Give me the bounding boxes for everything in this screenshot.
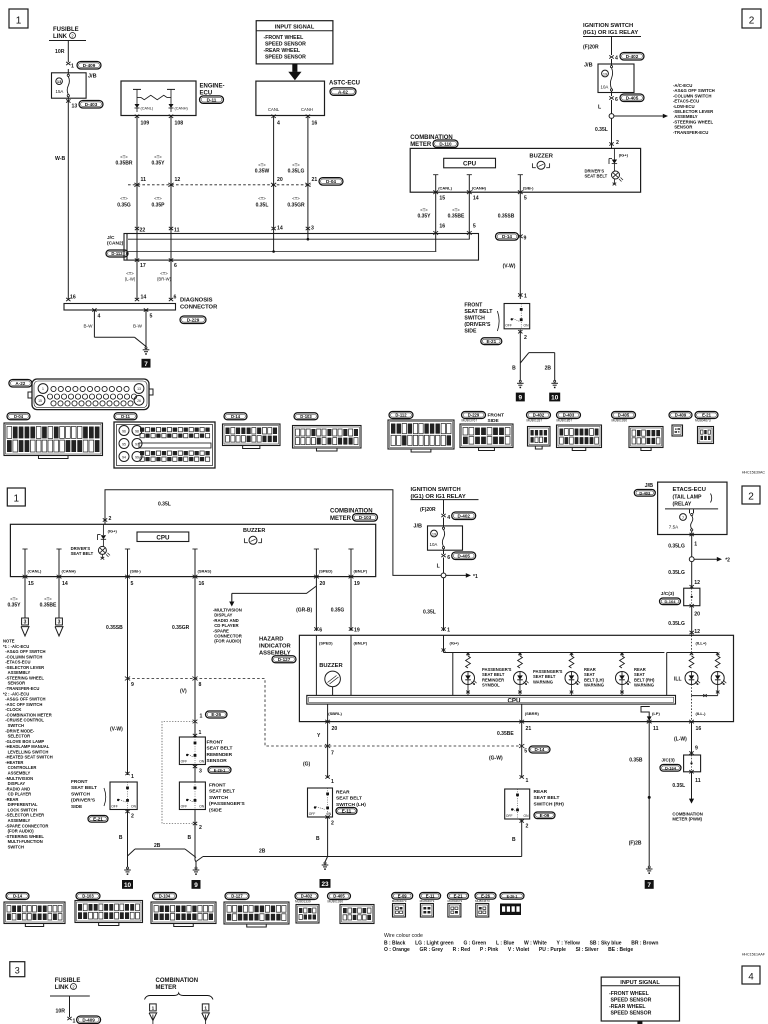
wire 0.35BE meter: [468, 192, 470, 239]
svg-text:0.35L: 0.35L: [158, 502, 171, 508]
svg-text:4: 4: [748, 972, 753, 983]
svg-text:B: B: [512, 837, 516, 843]
svg-text:B: B: [316, 836, 320, 842]
svg-text:SYMBOL: SYMBOL: [482, 683, 500, 688]
svg-text:1: 1: [152, 1005, 155, 1010]
svg-text:4: 4: [447, 515, 450, 521]
svg-text:14: 14: [62, 581, 68, 587]
connector row1 D-04: [7, 413, 30, 420]
svg-text:13: 13: [57, 79, 62, 84]
hazard bottom pins: [325, 720, 330, 724]
wire V passenger: [194, 679, 196, 722]
connector row2 D-402: [295, 893, 318, 900]
meter CPU block: [444, 158, 496, 168]
page connector s3 a: [150, 1004, 157, 1011]
svg-text:D-409: D-409: [83, 63, 96, 68]
svg-text:ASSEMBLY: ASSEMBLY: [3, 771, 30, 776]
wire W-B: [67, 103, 69, 300]
svg-text:(V-W): (V-W): [503, 264, 516, 270]
svg-text:6: 6: [615, 97, 618, 103]
svg-text:-GLOVE BOX LAMP: -GLOVE BOX LAMP: [3, 739, 44, 744]
svg-text:3: 3: [15, 965, 20, 975]
svg-text:COMBINATION: COMBINATION: [156, 978, 199, 984]
svg-text:6: 6: [447, 555, 450, 561]
svg-text:<T>: <T>: [258, 163, 266, 168]
svg-text:(L-W): (L-W): [674, 737, 687, 743]
svg-text:(DRIVER'S: (DRIVER'S: [464, 322, 491, 328]
svg-text:SEAT BELT: SEAT BELT: [71, 551, 94, 556]
connector A-22 drawing: [32, 379, 149, 410]
ASTC pin 4 wire CANL: [271, 115, 275, 118]
warning lamp rear LH: [569, 656, 574, 668]
svg-text:FRONT: FRONT: [71, 779, 88, 785]
junction star1: [443, 558, 445, 573]
connector D-04 dashed line: [128, 184, 311, 186]
svg-text:D-402: D-402: [301, 894, 313, 899]
svg-text:11: 11: [653, 726, 659, 732]
svg-text:OFF: OFF: [181, 759, 188, 763]
svg-text:REAR: REAR: [336, 790, 350, 796]
svg-text:LOCK SWITCH: LOCK SWITCH: [3, 807, 37, 812]
ignition feed rail s2: [105, 490, 441, 576]
svg-text:(LP): (LP): [652, 711, 660, 716]
svg-text:98: 98: [135, 429, 139, 433]
rear seat belt switch LH: [308, 788, 333, 817]
svg-text:D-14: D-14: [231, 414, 241, 419]
svg-text:-TRANSFER-ECU: -TRANSFER-ECU: [3, 686, 39, 691]
svg-text:B: B: [188, 835, 192, 841]
svg-text:20: 20: [320, 581, 326, 587]
svg-text:SENSOR: SENSOR: [3, 681, 25, 686]
svg-text:DIAGNOSIS: DIAGNOSIS: [180, 298, 213, 304]
svg-text:O : Orange GR : Grey: O : Orange GR : Grey R : Red P : Pink V …: [384, 947, 633, 953]
svg-text:-STEERING WHEEL: -STEERING WHEEL: [3, 834, 44, 839]
svg-text:SENSOR: SENSOR: [207, 758, 228, 764]
svg-text:-REAR: -REAR: [3, 797, 18, 802]
svg-text:J/B: J/B: [645, 483, 654, 489]
svg-text:Wire colour code: Wire colour code: [384, 933, 423, 939]
wire 10R: [67, 41, 69, 63]
rear seat belt switch RH: [505, 789, 530, 819]
svg-text:(S/B-): (S/B-): [523, 185, 534, 190]
svg-text:10A: 10A: [430, 542, 438, 547]
svg-text:D-405: D-405: [626, 95, 639, 100]
svg-text:13: 13: [72, 104, 78, 110]
svg-text:MU801339: MU801339: [295, 899, 311, 903]
svg-text:(CANL): (CANL): [141, 107, 154, 111]
svg-text:HHC15E39AC: HHC15E39AC: [742, 471, 766, 475]
svg-text:1: 1: [447, 628, 450, 634]
svg-text:5: 5: [524, 195, 527, 201]
svg-text:(BNLP): (BNLP): [354, 569, 368, 574]
svg-text:D-402: D-402: [626, 54, 639, 59]
svg-text:4: 4: [277, 121, 280, 127]
svg-text:ASSEMBLY: ASSEMBLY: [3, 818, 30, 823]
svg-text:<T>: <T>: [160, 271, 168, 276]
ground G10 s1: [554, 380, 556, 382]
svg-text:-AS&G OFF SWITCH: -AS&G OFF SWITCH: [3, 697, 46, 702]
svg-text:-CRUISE CONTROL: -CRUISE CONTROL: [3, 718, 44, 723]
svg-text:B : Black LG : Light gre: B : Black LG : Light green G : Green L :…: [384, 941, 658, 947]
svg-text:FRONT: FRONT: [209, 783, 226, 789]
svg-text:HHC15E1AAF: HHC15E1AAF: [742, 953, 766, 957]
svg-text:(V): (V): [180, 689, 187, 695]
svg-text:A-02: A-02: [338, 89, 348, 94]
svg-text:(FOR AUDIO): (FOR AUDIO): [3, 829, 34, 834]
svg-text:-RADIO AND: -RADIO AND: [3, 786, 30, 791]
svg-text:0.35LG: 0.35LG: [668, 544, 685, 550]
svg-text:-FRONT WHEEL: -FRONT WHEEL: [609, 991, 650, 997]
connector row2 E-09: [392, 893, 413, 900]
svg-text:19: 19: [432, 531, 436, 536]
svg-text:E-21: E-21: [702, 413, 712, 418]
junction to other ECUs: [611, 100, 613, 114]
connector row2 D-104: [153, 893, 177, 900]
svg-text:(CANH): (CANH): [62, 569, 77, 574]
svg-text:7: 7: [144, 361, 148, 368]
svg-text:0.35SB: 0.35SB: [106, 625, 123, 631]
svg-text:0.35L: 0.35L: [672, 783, 685, 789]
wire B driver s1: [519, 330, 521, 381]
connector row1 D-14: [224, 413, 247, 420]
svg-text:ON: ON: [326, 812, 332, 816]
svg-text:<T>: <T>: [452, 208, 460, 213]
connector row1 D-402: [527, 412, 551, 419]
svg-text:<T>: <T>: [292, 196, 300, 201]
svg-text:(F)2B: (F)2B: [629, 841, 642, 847]
svg-text:CANL: CANL: [268, 107, 280, 112]
dashed assembly outline passenger: [162, 722, 193, 824]
svg-text:0.35LG: 0.35LG: [668, 621, 685, 627]
svg-text:(RELAY: (RELAY: [673, 502, 692, 508]
pins above J/C CAN2: [135, 227, 139, 230]
svg-text:0.35L: 0.35L: [423, 610, 436, 616]
section marker 3: [10, 962, 25, 977]
svg-text:J/B: J/B: [413, 524, 422, 530]
svg-text:4: 4: [615, 56, 618, 62]
svg-text:(GR-B): (GR-B): [296, 608, 312, 614]
svg-text:D-110: D-110: [439, 141, 452, 146]
svg-text:108: 108: [175, 121, 184, 127]
svg-text:(ILL+): (ILL+): [696, 641, 708, 646]
wire GR-B: [315, 577, 317, 631]
svg-text:6: 6: [319, 627, 322, 633]
svg-text:*2: *2: [725, 558, 730, 564]
svg-text:21: 21: [526, 726, 532, 732]
svg-text:IGNITION SWITCH: IGNITION SWITCH: [583, 23, 633, 29]
svg-text:BUZZER: BUZZER: [529, 153, 553, 159]
svg-text:SIDE: SIDE: [71, 804, 83, 810]
svg-text:-COLUMN SWITCH: -COLUMN SWITCH: [3, 654, 42, 659]
svg-text:(L-W): (L-W): [125, 277, 136, 282]
front seat belt reminder sensor: [194, 722, 196, 738]
svg-text:11: 11: [141, 177, 147, 183]
svg-text:2B: 2B: [154, 843, 161, 849]
svg-text:D-14: D-14: [535, 747, 545, 752]
svg-text:<T>: <T>: [120, 196, 128, 201]
warning lamp passenger warning: [518, 656, 523, 668]
svg-text:ENGINE-: ENGINE-: [200, 84, 225, 90]
connector row1 D-229: [462, 412, 486, 419]
svg-text:SEAT BELT: SEAT BELT: [464, 309, 493, 315]
svg-text:-ASC OFF SWITCH: -ASC OFF SWITCH: [3, 702, 42, 707]
svg-text:OFF: OFF: [309, 812, 316, 816]
page connector to sheet3 a: [22, 618, 29, 625]
connector row1 D-409: [669, 412, 692, 419]
svg-text:11: 11: [174, 228, 180, 234]
svg-text:0.35G: 0.35G: [117, 203, 131, 209]
svg-text:15A: 15A: [56, 89, 64, 94]
svg-text:0.35B: 0.35B: [629, 758, 643, 764]
svg-text:(SBRL): (SBRL): [328, 711, 342, 716]
svg-text:1: 1: [526, 778, 529, 784]
svg-text:SEAT BELT: SEAT BELT: [71, 785, 97, 791]
svg-text:(SPED): (SPED): [319, 569, 333, 574]
svg-text:(V-W): (V-W): [110, 727, 123, 733]
svg-text:SELECTOR: SELECTOR: [3, 734, 30, 739]
front seat belt switch driver s2: [110, 782, 137, 810]
section marker 1 sheet2: [7, 488, 25, 506]
svg-text:0.35BE: 0.35BE: [497, 731, 514, 737]
svg-text:(SIDE: (SIDE: [209, 807, 223, 813]
svg-text:MU801857: MU801857: [557, 419, 573, 423]
connector D-405 pin6 s2: [441, 554, 445, 557]
svg-text:D-402: D-402: [533, 413, 545, 418]
svg-text:SWITCH: SWITCH: [71, 791, 90, 797]
svg-text:9: 9: [131, 682, 134, 688]
section marker 1: [9, 9, 28, 28]
section marker 2: [742, 9, 761, 28]
warning lamp passenger reminder: [466, 656, 471, 668]
connector row1 D-103: [294, 413, 318, 420]
svg-text:3: 3: [58, 620, 61, 626]
svg-text:SPEED SENSOR: SPEED SENSOR: [264, 41, 307, 47]
svg-text:3: 3: [24, 620, 27, 626]
svg-text:E-09: E-09: [398, 894, 408, 899]
svg-text:(SBRR): (SBRR): [525, 711, 540, 716]
hazard internal SPED BNLP wires: [315, 635, 317, 695]
svg-text:(G): (G): [303, 762, 311, 768]
engine ECU CANH transistor: [170, 98, 172, 105]
svg-text:SEAT BELT: SEAT BELT: [534, 795, 560, 801]
svg-text:3: 3: [199, 769, 202, 775]
svg-text:2: 2: [526, 824, 529, 830]
svg-text:16: 16: [199, 581, 205, 587]
svg-text:5: 5: [131, 581, 134, 587]
CPU bar: [307, 695, 676, 704]
svg-text:<T>: <T>: [44, 597, 52, 602]
SBRR wire inside: [521, 704, 523, 722]
svg-text:E-21: E-21: [454, 894, 464, 899]
connector row2 E-26-1: [500, 893, 524, 900]
svg-text:5: 5: [524, 749, 527, 755]
svg-text:SPEED SENSOR: SPEED SENSOR: [609, 1011, 652, 1017]
svg-text:ON: ON: [199, 759, 205, 763]
ILL lamps circuit: [691, 635, 693, 652]
svg-text:ASSEMBLY: ASSEMBLY: [3, 670, 30, 675]
svg-text:D-403: D-403: [639, 491, 651, 496]
svg-text:D-229: D-229: [468, 413, 480, 418]
section marker 4: [742, 966, 760, 984]
svg-text:7: 7: [682, 516, 684, 520]
svg-text:0.35L: 0.35L: [595, 127, 608, 133]
svg-text:CD PLAYER: CD PLAYER: [3, 792, 31, 797]
connector row2 D-14: [6, 893, 29, 900]
svg-text:D-127: D-127: [278, 657, 291, 662]
svg-text:B: B: [512, 366, 516, 372]
svg-text:LINK: LINK: [53, 34, 68, 40]
wire 0.35LG 3: [691, 606, 693, 636]
svg-text:D-04: D-04: [14, 414, 24, 419]
hazard indicator assembly box: [299, 635, 733, 721]
ground G23: [325, 857, 328, 863]
svg-text:METER (PWM): METER (PWM): [672, 817, 702, 822]
svg-text:0.35L: 0.35L: [256, 203, 269, 209]
svg-text:<T>: <T>: [120, 155, 128, 160]
svg-text:(SPED): (SPED): [319, 641, 333, 646]
svg-text:17: 17: [140, 263, 146, 269]
svg-text:-DRIVE MODE-: -DRIVE MODE-: [3, 728, 35, 733]
meter CPU s2: [137, 532, 189, 542]
connector row2 D-103: [76, 893, 100, 900]
svg-text:SIDE: SIDE: [464, 329, 477, 335]
svg-text:14: 14: [473, 195, 479, 201]
svg-text:OFF: OFF: [181, 804, 188, 808]
svg-text:9: 9: [519, 395, 523, 402]
svg-text:B: B: [119, 835, 123, 841]
svg-text:0.35W: 0.35W: [255, 169, 270, 175]
svg-text:7: 7: [331, 751, 334, 757]
pins below J/C CAN2: [135, 258, 139, 261]
svg-text:2B: 2B: [259, 849, 266, 855]
svg-text:D-103: D-103: [82, 894, 94, 899]
svg-text:16: 16: [312, 121, 318, 127]
svg-text:D-104: D-104: [159, 894, 171, 899]
svg-text:1: 1: [694, 542, 697, 548]
svg-text:CONNECTOR: CONNECTOR: [180, 305, 218, 311]
wire F20R s2: [443, 500, 445, 514]
svg-text:LINK: LINK: [55, 985, 70, 991]
svg-text:(CANH): (CANH): [472, 185, 487, 190]
svg-text:15: 15: [38, 399, 42, 403]
svg-text:(CANH): (CANH): [175, 107, 189, 111]
arrow below input signal s4: [637, 1021, 642, 1024]
svg-text:B-W: B-W: [84, 324, 94, 329]
svg-text:REAR: REAR: [534, 789, 548, 795]
svg-text:D-403: D-403: [563, 413, 575, 418]
svg-text:FUSIBLE: FUSIBLE: [53, 27, 79, 33]
connector row2 E-21: [448, 893, 469, 900]
svg-text:-TRANSFER-ECU: -TRANSFER-ECU: [673, 130, 708, 135]
svg-text:SEAT BELT: SEAT BELT: [207, 746, 233, 752]
svg-text:ETACS-ECU: ETACS-ECU: [673, 487, 706, 493]
svg-text:19: 19: [354, 581, 360, 587]
svg-text:0.35P: 0.35P: [151, 203, 165, 209]
svg-text:D-403: D-403: [85, 102, 98, 107]
svg-text:<T>: <T>: [292, 163, 300, 168]
connector row1 E-21: [695, 412, 718, 419]
svg-text:1: 1: [524, 294, 527, 300]
diagnosis pin 4 wire B-W: [92, 308, 96, 311]
svg-text:CPU: CPU: [507, 697, 521, 704]
svg-text:(CAN2): (CAN2): [107, 241, 124, 247]
svg-text:ON: ON: [524, 814, 530, 818]
svg-text:D-11: D-11: [121, 414, 131, 419]
connector row1 D-403: [557, 412, 581, 419]
svg-text:0.35LG: 0.35LG: [668, 570, 685, 576]
svg-text:0.35GR: 0.35GR: [172, 625, 190, 631]
ground bus 2B left: [135, 848, 185, 850]
svg-text:<T>: <T>: [126, 271, 134, 276]
svg-text:0.35Y: 0.35Y: [7, 603, 21, 609]
svg-text:16: 16: [696, 726, 702, 732]
svg-text:-HEATED SEAT SWITCH: -HEATED SEAT SWITCH: [3, 755, 53, 760]
svg-text:SWITCH: SWITCH: [464, 316, 485, 322]
svg-text:W-B: W-B: [55, 156, 66, 162]
svg-text:96: 96: [122, 429, 126, 433]
connector row2 E-11: [420, 893, 441, 900]
svg-text:3: 3: [311, 226, 314, 232]
svg-text:-STEERING WHEEL: -STEERING WHEEL: [3, 675, 44, 680]
wire 0.35G s2: [350, 577, 352, 631]
svg-text:D-164: D-164: [665, 766, 677, 771]
front seat belt switch driver side s1: [504, 304, 530, 329]
ETACS relay coil: [689, 509, 691, 513]
J/C CAN2 internal wires: [136, 234, 138, 261]
svg-text:B-W: B-W: [133, 324, 143, 329]
connector D-14 pin 9 s1: [496, 233, 519, 241]
svg-text:METER: METER: [330, 516, 352, 522]
wire 0.35GR s2: [194, 577, 196, 679]
svg-text:INPUT SIGNAL: INPUT SIGNAL: [620, 980, 660, 986]
svg-text:15: 15: [439, 195, 445, 201]
svg-text:9: 9: [524, 236, 527, 242]
svg-text:*1 : -A/C-ECU: *1 : -A/C-ECU: [3, 644, 29, 649]
wire V-W s2: [127, 679, 129, 776]
svg-text:2: 2: [199, 825, 202, 831]
ground G9 s2: [195, 810, 196, 868]
svg-text:6: 6: [174, 295, 177, 301]
svg-text:2: 2: [131, 814, 134, 820]
svg-text:0.35LG: 0.35LG: [288, 169, 305, 175]
wire B rear RH: [521, 819, 523, 857]
svg-text:7.5A: 7.5A: [669, 525, 679, 530]
svg-text:J/B: J/B: [88, 74, 97, 80]
svg-text:(IG1) OR IG1 RELAY: (IG1) OR IG1 RELAY: [583, 30, 638, 36]
svg-text:OFF: OFF: [506, 814, 513, 818]
svg-text:E-09: E-09: [540, 813, 550, 818]
svg-text:23: 23: [321, 881, 329, 888]
svg-text:1: 1: [199, 730, 202, 736]
svg-text:<T>: <T>: [154, 196, 162, 201]
warning lamp rail: [443, 635, 445, 652]
svg-text:10R: 10R: [56, 1008, 66, 1014]
svg-text:(DRIVER'S: (DRIVER'S: [71, 798, 96, 804]
connector row2 D-127: [225, 893, 249, 900]
dashed junction line D-14 s2: [128, 679, 522, 747]
svg-text:MU801337: MU801337: [527, 419, 543, 423]
svg-text:CONTROLLER: CONTROLLER: [3, 765, 36, 770]
svg-text:10: 10: [551, 395, 559, 402]
svg-text:9: 9: [194, 882, 198, 889]
svg-text:CPU: CPU: [463, 161, 477, 168]
ground bus 2B right: [203, 856, 522, 858]
svg-text:-SELECTOR LEVER: -SELECTOR LEVER: [3, 665, 44, 670]
svg-text:MU801930: MU801930: [612, 419, 628, 423]
svg-text:SWITCH: SWITCH: [3, 844, 24, 849]
svg-text:(IG+): (IG+): [108, 528, 118, 533]
LP pulse symbol: [641, 707, 650, 722]
